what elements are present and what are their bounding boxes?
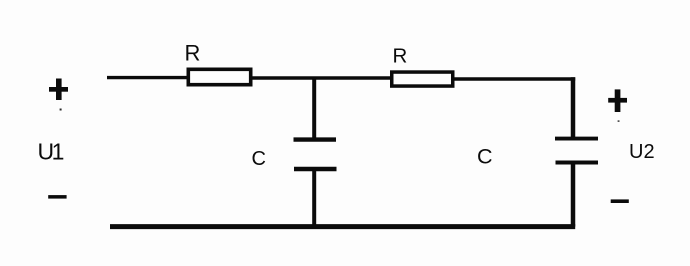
svg-text:U1: U1: [38, 138, 64, 164]
wire bottom return (ground rail): [110, 224, 575, 229]
capacitor C1: [294, 140, 337, 169]
capacitor C2: [555, 139, 598, 163]
plus terminal of U2: [608, 89, 627, 121]
wire right vertical (corner down to C2): [571, 77, 576, 138]
svg-text:C: C: [252, 148, 266, 170]
wire C1 bottom lead: [312, 169, 316, 227]
wire input top (left lead to R1): [107, 76, 188, 79]
node A (junction of R1, R2, C1 top lead): [312, 78, 316, 140]
minus terminal of U1: [48, 195, 66, 199]
resistor R2: [392, 72, 453, 86]
resistor R1: [188, 69, 250, 84]
svg-text:C: C: [477, 145, 493, 169]
minus terminal of U2: [611, 199, 629, 203]
svg-text:R: R: [185, 41, 201, 66]
wire R1 to R2 (top middle segment): [252, 76, 392, 79]
wire C2 bottom lead: [571, 163, 576, 227]
svg-text:U2: U2: [629, 141, 655, 163]
plus terminal of U1: [49, 79, 68, 111]
svg-text:R: R: [393, 45, 408, 68]
wire R2 to top-right corner: [453, 77, 575, 81]
